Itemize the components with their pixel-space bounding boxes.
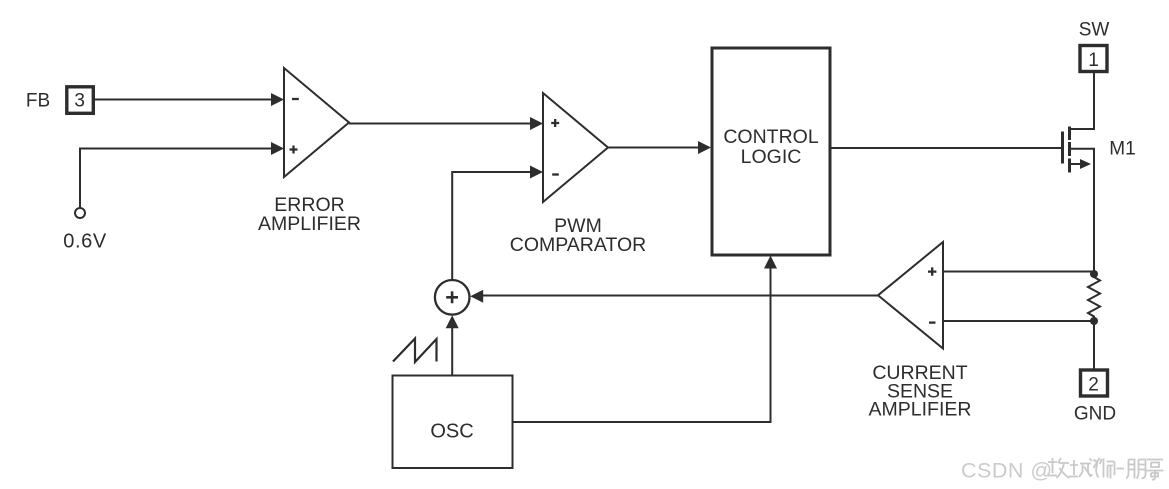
transistor M1 channel segments	[1068, 127, 1071, 173]
svg-text:AMPLIFIER: AMPLIFIER	[258, 213, 361, 235]
transistor M1 source lead	[1071, 149, 1094, 274]
transistor M1 gate bar	[1061, 132, 1064, 164]
pin 2 box (GND)	[1081, 370, 1108, 396]
svg-text:SW: SW	[1079, 20, 1110, 41]
wire PWM comparator output to control logic	[608, 147, 699, 149]
wire oscillator to control logic	[513, 268, 771, 422]
pin 1 box (SW)	[1080, 46, 1107, 72]
wire summing node to PWM comparator minus input	[452, 172, 531, 280]
control logic block	[712, 48, 830, 255]
wire 0.6V reference to error amplifier non-inverting input	[80, 149, 272, 209]
svg-text:M1: M1	[1109, 139, 1135, 160]
svg-text:3: 3	[74, 91, 85, 112]
svg-text:2: 2	[1088, 375, 1099, 396]
wire sense resistor to GND pin	[1093, 321, 1095, 369]
transistor M1 body arrow	[1071, 163, 1080, 165]
oscillator block OSC	[393, 376, 513, 469]
junction dot bottom of sense resistor	[1090, 317, 1098, 325]
svg-text:AMPLIFIER: AMPLIFIER	[869, 399, 972, 421]
svg-text:LOGIC: LOGIC	[741, 146, 802, 168]
svg-text:COMPARATOR: COMPARATOR	[510, 234, 647, 256]
summing node	[435, 280, 470, 315]
resistor sense	[1088, 274, 1100, 321]
wire SW pin to M1 drain	[1070, 73, 1094, 129]
svg-text:CONTROL: CONTROL	[723, 126, 818, 148]
pin 3 box (FB)	[67, 87, 94, 114]
wire FB pin to error amplifier inverting input	[95, 99, 272, 101]
junction dot top of sense resistor	[1090, 270, 1098, 278]
wire control logic output to M1 gate	[832, 147, 1062, 149]
svg-text:FB: FB	[26, 91, 50, 112]
PWM comparator minus sign	[552, 173, 559, 175]
svg-text:CSDN @: CSDN @	[961, 459, 1053, 483]
current sense amplifier minus sign	[929, 321, 936, 323]
svg-text:0.6V: 0.6V	[63, 231, 107, 253]
sawtooth ramp symbol	[393, 339, 437, 363]
wire current sense amplifier minus input to resistor bottom	[943, 320, 1094, 322]
wire oscillator ramp to summing node	[451, 328, 453, 375]
error amplifier minus sign	[292, 98, 299, 100]
current sense amplifier plus sign	[928, 267, 936, 275]
wire error amplifier output to PWM comparator plus input	[349, 123, 531, 125]
summing node plus sign	[446, 291, 458, 303]
error amplifier plus sign	[290, 146, 298, 154]
wire current sense amplifier output to summing node	[482, 295, 878, 297]
op-amp current sense amplifier	[878, 242, 943, 349]
op-amp error amplifier	[284, 68, 349, 177]
wire current sense amplifier plus input to resistor top	[943, 271, 1094, 273]
svg-text:GND: GND	[1074, 404, 1116, 425]
watermark chinese glyphs	[1047, 458, 1164, 480]
op-amp PWM comparator	[543, 93, 608, 202]
PWM comparator plus sign	[551, 119, 559, 127]
svg-text:1: 1	[1088, 50, 1099, 71]
0.6V reference terminal	[75, 208, 85, 218]
svg-text:OSC: OSC	[430, 421, 473, 443]
